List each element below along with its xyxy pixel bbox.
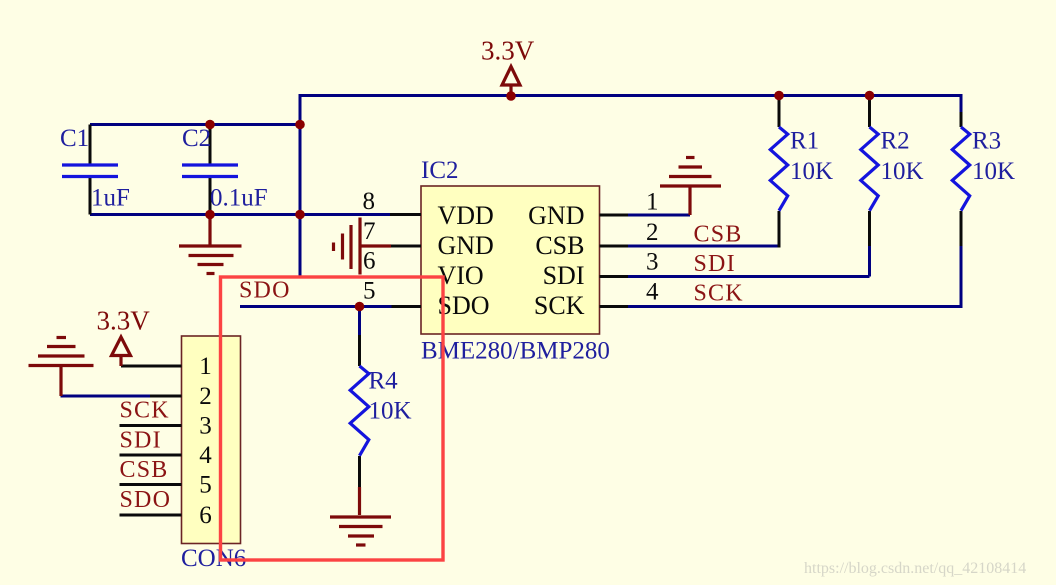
svg-text:IC2: IC2	[421, 157, 459, 184]
svg-text:3: 3	[646, 249, 659, 276]
svg-text:SDI: SDI	[694, 251, 736, 277]
svg-text:1: 1	[199, 353, 212, 380]
svg-text:10K: 10K	[369, 398, 412, 425]
svg-text:5: 5	[199, 472, 212, 499]
svg-text:10K: 10K	[790, 158, 833, 185]
svg-text:3: 3	[199, 413, 212, 440]
svg-text:8: 8	[363, 188, 376, 215]
svg-text:R4: R4	[369, 368, 399, 395]
svg-text:C1: C1	[60, 125, 89, 152]
svg-text:CSB: CSB	[120, 457, 169, 483]
svg-text:SDO: SDO	[438, 291, 490, 320]
svg-text:6: 6	[363, 248, 376, 275]
svg-text:10K: 10K	[972, 158, 1015, 185]
svg-text:SCK: SCK	[120, 398, 170, 424]
svg-text:SDO: SDO	[239, 278, 291, 304]
svg-text:SCK: SCK	[694, 281, 744, 307]
svg-text:C2: C2	[182, 125, 211, 152]
svg-text:SCK: SCK	[534, 291, 585, 320]
svg-text:BME280/BMP280: BME280/BMP280	[421, 338, 610, 365]
svg-text:4: 4	[199, 442, 212, 469]
svg-text:4: 4	[646, 279, 659, 306]
svg-text:1: 1	[646, 189, 659, 216]
svg-text:1uF: 1uF	[91, 185, 130, 212]
svg-text:3.3V: 3.3V	[97, 306, 151, 336]
svg-text:CSB: CSB	[694, 222, 743, 248]
svg-text:GND: GND	[438, 231, 494, 260]
svg-text:2: 2	[646, 219, 659, 246]
svg-text:10K: 10K	[881, 158, 924, 185]
svg-text:VDD: VDD	[438, 201, 494, 230]
svg-text:GND: GND	[528, 201, 584, 230]
svg-text:6: 6	[199, 502, 212, 529]
svg-text:R2: R2	[881, 128, 910, 155]
svg-text:R3: R3	[972, 128, 1001, 155]
svg-text:2: 2	[199, 383, 212, 410]
svg-text:5: 5	[363, 278, 376, 305]
svg-text:SDI: SDI	[120, 428, 162, 454]
svg-text:R1: R1	[790, 128, 819, 155]
svg-text:SDI: SDI	[543, 261, 585, 290]
svg-text:SDO: SDO	[120, 487, 172, 513]
svg-text:https://blog.csdn.net/qq_42108: https://blog.csdn.net/qq_42108414	[804, 560, 1026, 577]
svg-text:3.3V: 3.3V	[481, 36, 535, 66]
svg-text:7: 7	[363, 218, 376, 245]
svg-text:CSB: CSB	[535, 231, 584, 260]
svg-text:0.1uF: 0.1uF	[210, 185, 268, 212]
